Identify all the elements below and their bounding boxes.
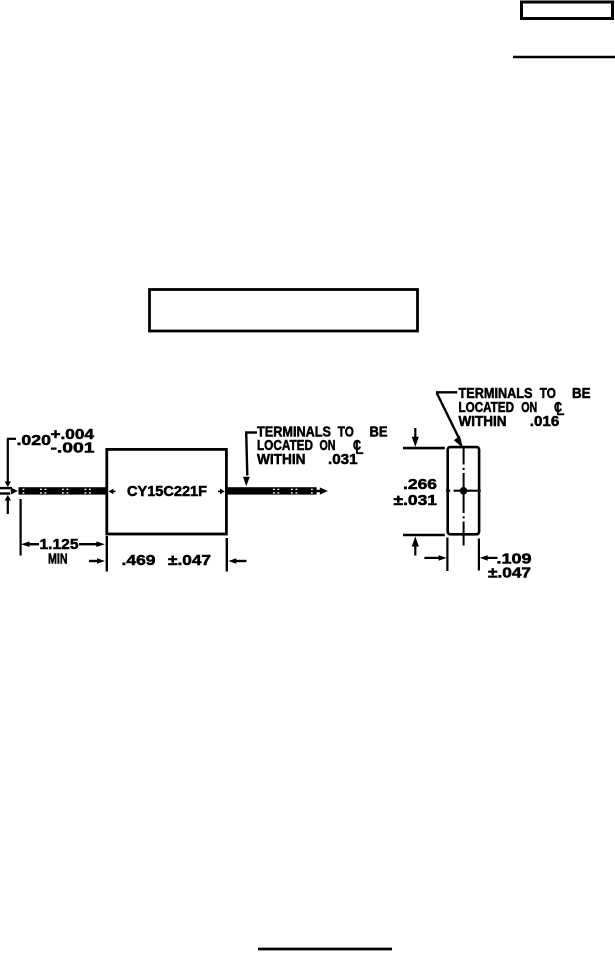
svg-text:.016: .016 xyxy=(530,413,560,430)
leader terminals note left xyxy=(243,433,257,487)
note text terminals .016 xyxy=(459,385,591,430)
svg-text:.020: .020 xyxy=(17,432,52,449)
footer rule bottom center xyxy=(258,948,392,951)
svg-text:±.047: ±.047 xyxy=(488,564,531,581)
note text terminals .031 xyxy=(257,423,388,468)
empty label rectangle center xyxy=(150,290,418,332)
dimension .020 lead dia leader xyxy=(5,439,16,514)
svg-text:TO: TO xyxy=(338,423,354,440)
dimension .266 bottom extension xyxy=(403,535,445,556)
left lead break end xyxy=(0,487,18,495)
end view horizontal centerline xyxy=(446,490,481,492)
svg-text:.266: .266 xyxy=(403,476,437,493)
terminal arrow inside body left xyxy=(109,489,116,495)
svg-text:BE: BE xyxy=(572,385,591,402)
dimension .469 +-.047 xyxy=(89,552,247,569)
svg-text:-.001: -.001 xyxy=(51,440,95,457)
left lead wire xyxy=(19,487,108,494)
end view right extension below xyxy=(478,539,480,571)
extension line body left below xyxy=(106,536,108,572)
dimension text .109 +-.047 xyxy=(488,550,532,581)
right lead wire xyxy=(226,487,316,494)
svg-text:CY15C221F: CY15C221F xyxy=(127,483,207,500)
svg-text:WITHIN: WITHIN xyxy=(459,413,507,430)
end view vertical centerline xyxy=(463,446,465,546)
end view left extension below xyxy=(446,538,448,572)
svg-text:WITHIN: WITHIN xyxy=(257,451,306,468)
svg-text:BE: BE xyxy=(370,423,388,440)
svg-text:MIN: MIN xyxy=(48,551,68,568)
dimension text .266 +-.031 xyxy=(394,476,438,509)
svg-text:±.031: ±.031 xyxy=(394,492,438,509)
part number label CY15C221F xyxy=(127,483,207,500)
terminal arrow inside body right xyxy=(218,489,225,495)
header rule top right xyxy=(513,56,615,59)
extension line body right below xyxy=(226,538,228,572)
dimension 1.125 MIN xyxy=(21,536,105,568)
end view body outline xyxy=(448,447,479,534)
leader terminals note right xyxy=(436,392,463,448)
right lead end arrow xyxy=(316,487,328,494)
end view terminal dot xyxy=(460,487,468,495)
dimension .266 top extension xyxy=(403,428,445,448)
extension line lead end 1.125 xyxy=(20,499,22,556)
svg-text:.469: .469 xyxy=(122,552,156,569)
svg-text:±.047: ±.047 xyxy=(168,552,211,569)
dimension .109 arrows xyxy=(424,555,497,561)
capacitor body outline xyxy=(107,449,227,534)
svg-text:.031: .031 xyxy=(328,451,358,468)
title block box top right xyxy=(522,2,613,19)
dimension text .020 +.004 -.001 xyxy=(17,426,95,457)
